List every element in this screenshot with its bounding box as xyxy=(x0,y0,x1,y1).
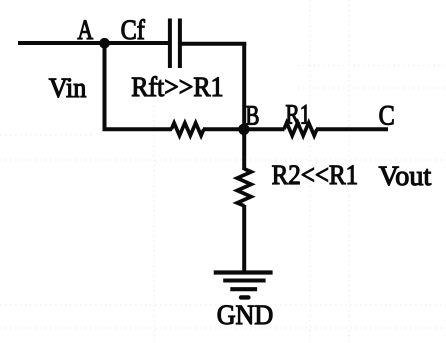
wire: resistor Rft to node B xyxy=(203,127,245,131)
wire: node B to resistor R1 xyxy=(244,127,285,131)
svg-text:Rft>>R1: Rft>>R1 xyxy=(131,72,223,103)
faint grid line horizontal y=65.5 xyxy=(298,65,446,67)
wire: node A down to bottom row xyxy=(103,43,107,131)
svg-text:R1: R1 xyxy=(285,100,310,131)
ground bar 3 xyxy=(230,287,257,291)
wire: capacitor right plate to top-right corner xyxy=(182,42,247,46)
resistor R2 zigzag (vertical) xyxy=(237,169,251,206)
svg-text:B: B xyxy=(245,100,259,131)
faint grid line horizontal y=135 xyxy=(0,134,92,136)
faint grid line horizontal y=88 xyxy=(298,87,446,89)
node A junction dot xyxy=(99,38,110,49)
ground bar 4 xyxy=(241,295,248,299)
wire: resistor R1 to node C xyxy=(316,127,388,131)
ground bar 1 xyxy=(214,270,273,274)
wire: node A to capacitor left plate xyxy=(104,41,168,45)
ground bar 2 xyxy=(223,279,265,283)
wire: node B down to resistor R2 xyxy=(242,129,246,170)
svg-text:Cf: Cf xyxy=(121,15,146,46)
svg-text:Vin: Vin xyxy=(49,73,87,104)
faint grid line horizontal y=328 xyxy=(0,327,446,329)
svg-text:Vout: Vout xyxy=(379,161,432,192)
resistor R1 zigzag xyxy=(284,123,317,136)
faint grid line horizontal y=304 xyxy=(0,304,446,306)
svg-text:R2<<R1: R2<<R1 xyxy=(272,160,359,191)
faint grid line vertical x=154 xyxy=(153,100,155,343)
wire: top-right corner down to node B xyxy=(242,42,246,131)
faint grid line horizontal y=160 xyxy=(0,159,446,161)
resistor Rft zigzag xyxy=(171,123,203,136)
capacitor Cf right plate xyxy=(178,19,182,69)
capacitor Cf left plate xyxy=(168,19,172,69)
node B junction dot xyxy=(238,124,249,135)
wire: bottom row left segment from corner to resistor Rft xyxy=(103,127,172,131)
svg-text:GND: GND xyxy=(217,300,274,331)
wire: top input to node A xyxy=(18,41,105,45)
svg-text:C: C xyxy=(379,101,395,132)
faint grid line vertical x=310 xyxy=(309,0,311,343)
svg-text:A: A xyxy=(77,15,93,46)
faint grid line vertical x=349 xyxy=(348,0,350,343)
wire: resistor R2 down to ground xyxy=(242,205,246,273)
